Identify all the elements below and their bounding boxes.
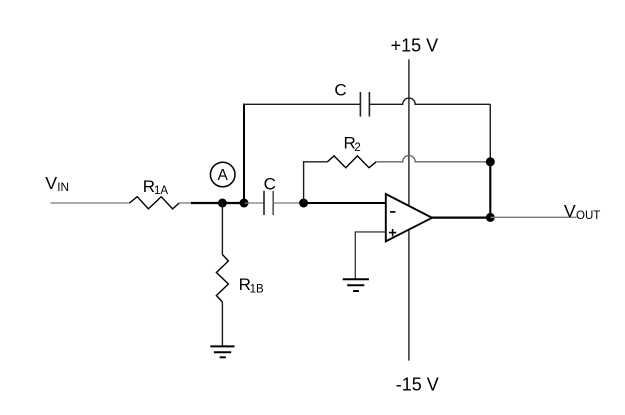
label VOUT [564,201,600,222]
capacitor C (series) [264,175,276,215]
resistor R1B [216,255,264,303]
wire node to series capacitor [244,202,264,204]
resistor R2 [327,133,376,167]
node A circle marker [210,162,235,187]
svg-text:IN: IN [57,180,69,194]
wire input VIN to R1A [51,202,130,204]
junction dot 3 (main / R2 vertical) [299,199,308,208]
wire R1A node segment (black) [191,202,244,204]
svg-text:C: C [334,81,346,100]
node -15V supply rail [396,375,439,395]
svg-text:V: V [564,201,576,221]
wire R1B top lead [221,203,223,255]
op-amp U1 [386,194,432,241]
svg-text:2: 2 [354,142,360,154]
junction dot 5 (output node) [486,213,495,222]
wire supply vertical line +15V to -15V [408,59,410,360]
wire op-amp noninverting input to ground [355,232,386,279]
svg-text:1B: 1B [250,283,264,295]
svg-text:OUT: OUT [576,210,600,222]
wire output to VOUT [490,216,576,218]
wire feedback C line right segment with hop over supply [369,98,490,104]
wire R2 left vertical to node 3 [304,162,328,203]
svg-text:1A: 1A [154,185,168,197]
svg-text:A: A [218,167,229,184]
svg-text:+15 V: +15 V [391,36,439,56]
wire right feedback vertical upper [489,104,491,162]
wire right feedback vertical lower [489,162,491,218]
svg-text:-15 V: -15 V [396,375,439,395]
capacitor C (feedback) [334,81,369,117]
wire R1B bottom lead [221,302,223,346]
junction dot 2 (main / feedback C vertical) [240,199,249,208]
svg-text:C: C [264,175,276,194]
svg-text:V: V [45,173,57,193]
wire op-amp output [432,217,490,219]
label VIN [45,173,69,194]
ground (noninverting input) [343,279,369,291]
wire feedback C line left segment [243,103,360,105]
resistor R1A [130,177,180,209]
node +15V supply rail [391,36,439,56]
ground (below R1B) [210,346,234,357]
junction dot 1 (main / R1B) [218,199,227,208]
wire node 2 up to feedback capacitor line [243,104,245,203]
wire node 3 to op-amp inverting input [300,202,386,204]
wire series capacitor to node 3 [273,202,300,204]
wire R1A to node (gray lead) [179,202,191,204]
wire R2 right segment with hop over supply [376,156,490,162]
junction dot 4 (R2 / right vertical) [486,157,495,166]
